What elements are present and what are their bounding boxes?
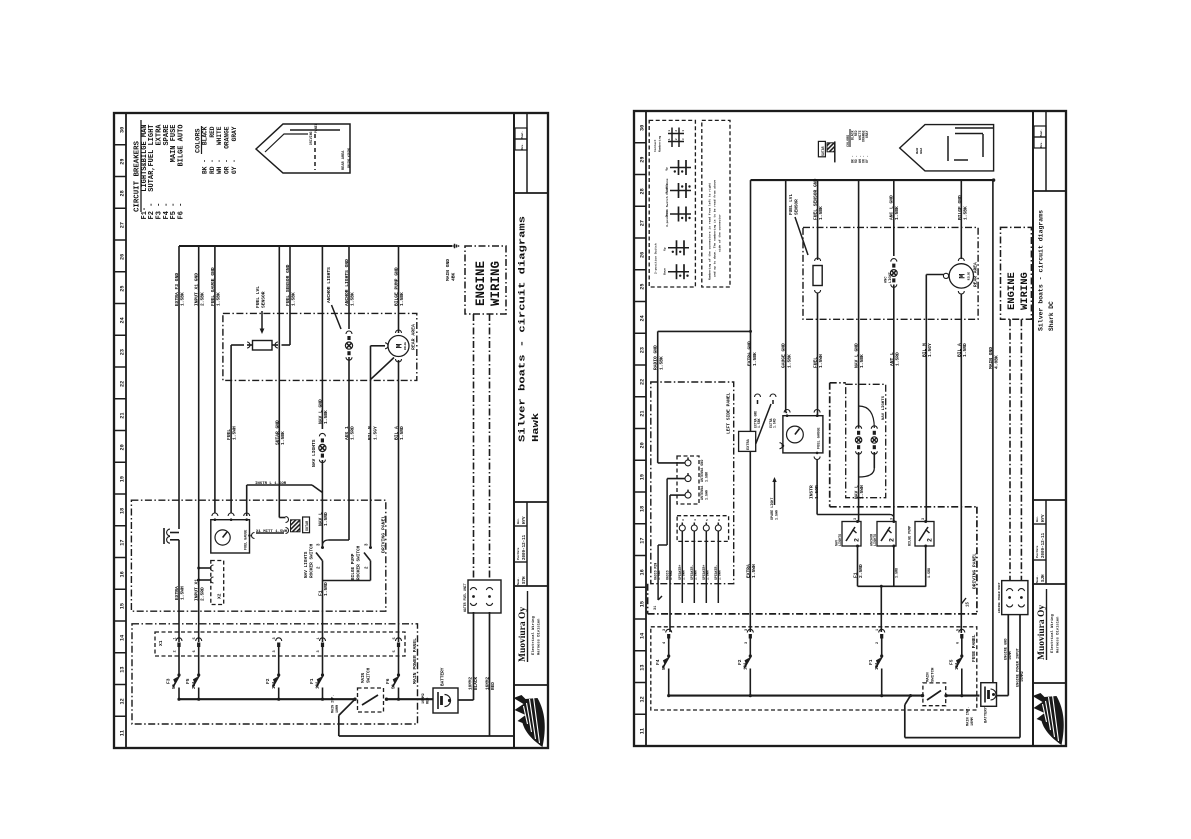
spare light arrow — [774, 479, 776, 505]
X1 pin 1 — [320, 638, 326, 641]
svg-text:F5: F5 — [948, 659, 954, 665]
svg-text:NAV L: NAV L — [317, 512, 323, 526]
svg-text:10A: 10A — [745, 662, 749, 670]
svg-text:OR -: OR - — [224, 159, 231, 174]
fuse F2 — [278, 647, 280, 675]
svg-text:1.5RD: 1.5RD — [669, 570, 673, 580]
svg-text:1.5RD: 1.5RD — [399, 426, 405, 440]
title block rev/date/form cells — [526, 502, 528, 586]
svg-text:1.5OR: 1.5OR — [814, 485, 820, 499]
engine wiring trunk lines — [473, 314, 475, 580]
svg-text:24: 24 — [120, 317, 126, 323]
svg-text:13: 13 — [640, 665, 646, 671]
wire FUEL GAUGE GND — [214, 246, 216, 513]
svg-text:1.5GY: 1.5GY — [927, 343, 933, 357]
svg-text:ENGINE GND: ENGINE GND — [1005, 638, 1009, 660]
svg-text:10A: 10A — [273, 681, 277, 689]
fuse panel pin + fuse F1 — [879, 629, 885, 632]
svg-text:SWITCH: SWITCH — [368, 667, 372, 683]
fuel gauge right — [783, 416, 823, 453]
X1 pin 1 — [176, 638, 182, 641]
svg-text:Rev.: Rev. — [1040, 141, 1043, 147]
svg-text:2.5RD: 2.5RD — [858, 564, 864, 578]
svg-text:EXTRA: EXTRA — [174, 586, 180, 600]
svg-text:ENGINE POWER INPUT: ENGINE POWER INPUT — [1017, 647, 1021, 687]
svg-text:3: 3 — [890, 518, 894, 520]
terminal tag 15 — [961, 598, 966, 604]
gauge terminals right — [784, 410, 790, 413]
wire AUX 1 (anchor lamp down) — [348, 357, 350, 540]
wire INSTR — [816, 460, 818, 515]
svg-text:RED: RED — [491, 682, 496, 690]
radio minus wire to tag 31 — [666, 479, 668, 545]
svg-text:Rev.: Rev. — [517, 518, 520, 524]
svg-text:GY -: GY - — [231, 159, 238, 174]
svg-text:16A: 16A — [956, 662, 960, 670]
svg-text:15: 15 — [120, 603, 126, 609]
svg-text:1.5BK: 1.5BK — [859, 354, 865, 368]
svg-text:AUX 1: AUX 1 — [344, 426, 350, 440]
svg-text:LEFT SIDE PANEL: LEFT SIDE PANEL — [726, 392, 732, 434]
svg-text:1: 1 — [876, 629, 880, 631]
wire EXTRA (antenna to X1) — [178, 540, 180, 642]
svg-text:F1: F1 — [309, 678, 315, 684]
wire battery to water fuel unit — [473, 612, 475, 700]
MAIN POWER PANEL dash-dot box — [132, 624, 418, 724]
svg-text:1.5BK: 1.5BK — [280, 431, 286, 445]
svg-text:Rev.: Rev. — [1036, 516, 1039, 522]
svg-text:F5: F5 — [185, 678, 191, 684]
svg-text:BIL M: BIL M — [367, 426, 373, 440]
wire RADIO plus to fuse F4 — [669, 495, 671, 632]
svg-text:F2: F2 — [265, 678, 271, 684]
rocker switch ANCHOR LIGHTS right — [877, 522, 896, 547]
svg-text:29: 29 — [120, 159, 126, 165]
svg-text:27: 27 — [120, 222, 126, 228]
svg-text:1.5WH: 1.5WH — [818, 354, 824, 368]
LEFT SIDE PANEL dash-dot box — [651, 382, 734, 584]
svg-text:SENSOR: SENSOR — [795, 199, 800, 215]
svg-text:FUEL LVL: FUEL LVL — [255, 286, 261, 308]
wire BIL M (motor to switch) — [385, 343, 388, 349]
svg-text:21: 21 — [640, 411, 646, 417]
svg-text:SWITCH: SWITCH — [932, 667, 936, 682]
boat outline icon — [256, 124, 350, 173]
DRIVING PANEL dash-dot box — [131, 500, 385, 611]
SUTAR legend symbol — [818, 141, 825, 156]
svg-text:SPARE LIGHT: SPARE LIGHT — [771, 498, 775, 520]
boat divider and labels — [314, 134, 316, 170]
wire BIL A (motor to X1 pin) — [398, 360, 400, 642]
svg-text:EXTRA: EXTRA — [745, 564, 751, 578]
svg-text:5A: 5A — [393, 683, 397, 689]
fuel gauge top terminals — [212, 513, 218, 516]
svg-text:16MM2: 16MM2 — [1021, 671, 1025, 682]
svg-text:F4: F4 — [655, 659, 661, 665]
svg-text:1.5WH: 1.5WH — [232, 426, 238, 440]
svg-text:17: 17 — [120, 540, 126, 546]
svg-text:3: 3 — [745, 642, 749, 644]
fuse panel pin + fuse F2 — [747, 629, 753, 632]
svg-text:28: 28 — [120, 190, 126, 196]
svg-text:1.5RD: 1.5RD — [323, 582, 329, 596]
svg-text:1.5BK: 1.5BK — [658, 356, 664, 370]
svg-text:14: 14 — [120, 635, 126, 641]
legend box switch positions — [649, 120, 695, 287]
svg-text:2009-12-11: 2009-12-11 — [523, 534, 527, 560]
extra antenna connector — [167, 529, 170, 536]
svg-text:2: 2 — [854, 538, 861, 542]
WATER FUEL UNIT connector box — [468, 580, 501, 613]
svg-text:29: 29 — [640, 157, 646, 163]
svg-text:Muut.: Muut. — [521, 131, 524, 139]
svg-text:1.5BK: 1.5BK — [752, 352, 758, 366]
bilge pump motor M — [388, 336, 409, 357]
svg-text:Electrical Wiring: Electrical Wiring — [1050, 614, 1055, 653]
svg-text:16MM2: 16MM2 — [486, 676, 491, 690]
svg-text:LIGHT: LIGHT — [889, 271, 893, 283]
svg-text:1.5BK: 1.5BK — [350, 292, 356, 306]
wire F1 (to X1) — [322, 581, 324, 643]
svg-text:1.5BK: 1.5BK — [963, 206, 969, 220]
svg-text:MAIN INP.: MAIN INP. — [967, 707, 971, 726]
wire NAV L GND — [321, 246, 323, 429]
svg-text:REAR: REAR — [916, 147, 919, 154]
svg-text:Middle: Middle — [665, 183, 669, 193]
left sheet frame and ruler — [114, 113, 548, 748]
svg-text:PANEL: PANEL — [314, 123, 318, 133]
wire NAV L to switch — [858, 452, 860, 521]
rocker switch BILGE PUMP right — [915, 522, 934, 547]
svg-text:BK -: BK - — [202, 159, 209, 174]
svg-text:5A: 5A — [173, 683, 177, 689]
svg-text:ENGINE: ENGINE — [1006, 272, 1018, 310]
svg-text:RD -: RD - — [209, 159, 216, 174]
svg-text:4.0BK: 4.0BK — [994, 355, 1000, 369]
svg-text:1.5WH: 1.5WH — [775, 510, 779, 520]
svg-text:20: 20 — [640, 442, 646, 448]
svg-text:BILGE: BILGE — [968, 271, 971, 280]
svg-text:6: 6 — [193, 650, 197, 652]
svg-text:Numbering: Numbering — [658, 136, 662, 152]
speaker wires — [681, 531, 683, 603]
fuel gauge — [211, 520, 250, 553]
svg-text:S7H: S7H — [523, 576, 527, 584]
svg-text:3: 3 — [273, 650, 277, 652]
svg-text:ENGINE POWER UNIT: ENGINE POWER UNIT — [998, 582, 1001, 613]
svg-text:1: 1 — [317, 637, 321, 639]
fuel gauge right terminal to SUTAR — [248, 534, 251, 537]
svg-text:WH -: WH - — [216, 159, 223, 174]
wire GAUGE GND right — [785, 180, 787, 412]
svg-text:RADIO GND: RADIO GND — [653, 345, 659, 370]
svg-text:5: 5 — [706, 519, 709, 521]
svg-text:3: 3 — [682, 519, 685, 521]
svg-text:1.5WH: 1.5WH — [706, 570, 710, 580]
MAIN SWITCH right — [923, 683, 946, 706]
svg-text:BILGE: BILGE — [404, 342, 407, 350]
svg-text:23: 23 — [640, 347, 646, 353]
svg-text:13: 13 — [120, 667, 126, 673]
wire BILGE PUMP GND — [398, 246, 400, 333]
svg-text:25A: 25A — [193, 681, 197, 689]
svg-text:1.5WH: 1.5WH — [859, 485, 865, 499]
fuse panel pin + fuse F4 — [666, 629, 672, 632]
svg-text:5: 5 — [193, 637, 197, 639]
svg-text:M: M — [958, 273, 968, 278]
fuse F1 — [322, 647, 324, 675]
BATTERY — [433, 688, 458, 713]
X1 connector box — [155, 632, 405, 656]
svg-text:1.5BK: 1.5BK — [657, 570, 661, 580]
svg-text:1.5BK: 1.5BK — [818, 206, 824, 220]
svg-text:1.5RD: 1.5RD — [962, 343, 968, 357]
svg-text:1.5WH: 1.5WH — [718, 570, 722, 580]
wire F1 branch to bilge switch — [323, 580, 371, 582]
svg-text:ORANGE: ORANGE — [224, 126, 231, 149]
svg-text:BIL A: BIL A — [394, 426, 400, 440]
svg-text:3: 3 — [745, 629, 749, 631]
REAR AREA dash-dot box right — [803, 227, 978, 319]
svg-text:BILGE GND: BILGE GND — [957, 195, 963, 220]
svg-text:1.5WH: 1.5WH — [682, 570, 686, 580]
svg-text:Electrical Wiring: Electrical Wiring — [531, 616, 536, 655]
svg-text:MAIN: MAIN — [927, 672, 931, 682]
wire engine power input cable — [905, 696, 911, 705]
svg-text:2-position Switch: 2-position Switch — [654, 243, 658, 274]
anchor light lamp — [345, 342, 352, 349]
svg-text:SUTAR GND: SUTAR GND — [274, 420, 280, 445]
svg-text:DRIVING: DRIVING — [309, 132, 313, 145]
DRIVING PANEL dash-dot box right — [830, 506, 977, 508]
svg-text:16: 16 — [640, 569, 646, 575]
svg-text:3: 3 — [854, 518, 858, 520]
svg-text:1.5RD: 1.5RD — [773, 418, 777, 428]
svg-text:SENSOR: SENSOR — [261, 291, 267, 308]
svg-text:Up: Up — [664, 247, 667, 251]
svg-text:Harness Division: Harness Division — [537, 618, 542, 655]
svg-text:Pvm/Date: Pvm/Date — [1035, 545, 1039, 558]
svg-text:23: 23 — [120, 349, 126, 355]
svg-text:10MM2: 10MM2 — [422, 693, 426, 704]
bilge pump motor right — [960, 180, 962, 259]
svg-text:AREA: AREA — [920, 147, 923, 154]
svg-text:25: 25 — [640, 284, 646, 290]
svg-text:X1: X1 — [158, 640, 164, 646]
svg-text:5: 5 — [393, 637, 397, 639]
REAR AREA dash-dot box — [223, 313, 417, 380]
svg-text:ANTENNA: ANTENNA — [701, 485, 705, 500]
svg-text:11: 11 — [640, 728, 646, 734]
svg-text:BILGE PUMP: BILGE PUMP — [351, 553, 356, 580]
svg-text:14: 14 — [640, 633, 646, 639]
svg-text:6: 6 — [956, 642, 960, 644]
svg-text:NAV L GND: NAV L GND — [854, 343, 860, 368]
svg-text:INSTR: INSTR — [809, 485, 815, 499]
svg-text:10A: 10A — [317, 681, 321, 689]
radio 3-pin connector — [677, 456, 699, 504]
svg-text:21: 21 — [120, 413, 126, 419]
svg-text:19: 19 — [640, 474, 646, 480]
svg-text:1.5WH: 1.5WH — [751, 564, 757, 578]
svg-text:NAV LIGHTS: NAV LIGHTS — [304, 551, 309, 578]
svg-text:5: 5 — [956, 629, 960, 631]
svg-text:WHITE: WHITE — [216, 126, 223, 145]
wire SUTAR GND — [278, 246, 280, 518]
svg-text:BATTERY: BATTERY — [441, 667, 446, 686]
svg-text:WIRING: WIRING — [1019, 272, 1031, 310]
FUSE PANEL dashed box — [651, 627, 977, 710]
wire FUEL SENSOR GND — [289, 246, 291, 345]
svg-text:HYV: HYV — [1042, 514, 1046, 522]
svg-text:1.5BK: 1.5BK — [323, 410, 329, 424]
right sheet frame and ruler — [634, 111, 1066, 746]
svg-text:Muoviura Oy: Muoviura Oy — [1037, 605, 1047, 660]
EXTRA connector box right — [739, 431, 756, 451]
svg-text:4BK: 4BK — [451, 272, 457, 281]
svg-text:ROCKER SWITCH: ROCKER SWITCH — [357, 545, 362, 580]
svg-text:12: 12 — [640, 696, 646, 702]
title block rev/date/form cells — [1045, 500, 1047, 584]
svg-text:1.5BK: 1.5BK — [757, 418, 761, 428]
svg-text:1.5BK: 1.5BK — [786, 354, 792, 368]
svg-text:Down: Down — [664, 268, 667, 275]
company logo — [1033, 693, 1064, 745]
svg-text:MAIN: MAIN — [362, 672, 366, 683]
svg-text:1.5BK: 1.5BK — [894, 206, 900, 220]
svg-text:Muut.: Muut. — [1040, 129, 1043, 137]
svg-text:Hawk: Hawk — [530, 412, 541, 442]
svg-text:1.5BK: 1.5BK — [705, 471, 709, 482]
svg-text:2.5RD: 2.5RD — [199, 587, 205, 601]
svg-text:Numbering of the connectors is: Numbering of the connectors is read from… — [708, 183, 712, 280]
svg-text:10A: 10A — [876, 662, 880, 670]
svg-text:11: 11 — [120, 730, 126, 736]
svg-text:SUTAR: SUTAR — [306, 520, 310, 531]
svg-text:ANTENNA GND: ANTENNA GND — [701, 460, 705, 482]
svg-text:F1: F1 — [318, 590, 324, 596]
fuse F5 — [198, 647, 200, 675]
svg-text:26: 26 — [640, 252, 646, 258]
svg-text:NAV LIGHTS: NAV LIGHTS — [311, 439, 317, 467]
bus left corner to radio gnd — [750, 180, 752, 431]
svg-text:5: 5 — [393, 650, 397, 652]
svg-text:Down: Down — [666, 210, 669, 217]
svg-text:20: 20 — [120, 444, 126, 450]
svg-text:WATER FUEL UNIT: WATER FUEL UNIT — [463, 583, 467, 612]
svg-text:F3: F3 — [166, 678, 172, 684]
wire NAV L GND right — [858, 180, 860, 388]
wire FUEL (sender to gauge) — [231, 344, 244, 346]
SUTAR connector — [286, 517, 289, 523]
svg-text:1.5RD: 1.5RD — [323, 512, 329, 526]
svg-text:1.5WH: 1.5WH — [694, 570, 698, 580]
wire EXTRA to fuse F2 — [749, 451, 751, 632]
wire engine gnd cable — [997, 695, 1009, 697]
ground symbol — [452, 245, 454, 246]
svg-text:30: 30 — [120, 127, 126, 133]
svg-text:22: 22 — [120, 381, 126, 387]
svg-text:MAIN GND: MAIN GND — [445, 259, 451, 281]
svg-text:REAR AREA: REAR AREA — [342, 150, 346, 170]
svg-text:15: 15 — [640, 601, 646, 607]
svg-text:EXTRA: EXTRA — [747, 438, 751, 450]
svg-text:MAIN GND: MAIN GND — [988, 347, 994, 369]
svg-text:1.5WH: 1.5WH — [705, 490, 709, 500]
boat outline icon right — [900, 125, 994, 171]
svg-text:16MM: 16MM — [1009, 651, 1013, 660]
svg-text:1.5BK: 1.5BK — [180, 292, 186, 306]
wire F1 feed rail right — [857, 546, 859, 586]
svg-text:1.5RD: 1.5RD — [896, 568, 900, 578]
fuse panel pin + fuse F5 — [959, 629, 965, 632]
svg-text:1.5GY: 1.5GY — [373, 426, 379, 440]
svg-text:NAV LIGHTS: NAV LIGHTS — [882, 395, 886, 420]
wire battery minus to engine — [339, 699, 355, 715]
svg-text:INSTR L 1.5OR: INSTR L 1.5OR — [255, 482, 287, 486]
svg-text:3: 3 — [317, 650, 321, 652]
svg-text:27: 27 — [640, 220, 646, 226]
svg-text:BILGE AUTO: BILGE AUTO — [178, 125, 186, 167]
svg-text:3: 3 — [663, 629, 667, 631]
svg-text:side of the connector: side of the connector — [718, 214, 722, 252]
wire INSTR L — [247, 484, 312, 486]
fuse F6 — [398, 647, 400, 675]
X1 pin 5 — [396, 638, 402, 641]
svg-text:DRIVING PANEL: DRIVING PANEL — [972, 553, 978, 589]
svg-text:22: 22 — [640, 379, 646, 385]
svg-text:HYV: HYV — [523, 516, 527, 524]
wire NAV L (lamp to switch) — [321, 460, 323, 547]
fuel level sender right — [817, 180, 819, 260]
svg-text:3: 3 — [922, 518, 926, 520]
svg-text:RED: RED — [426, 697, 430, 704]
svg-text:FUSE PANEL: FUSE PANEL — [971, 634, 977, 662]
svg-text:FUEL GAUGE: FUEL GAUGE — [818, 427, 822, 449]
wire BIL A right — [960, 294, 962, 633]
svg-text:GY -: GY - — [865, 155, 869, 163]
svg-text:F6: F6 — [385, 678, 391, 684]
main power bus right — [669, 695, 923, 697]
MAIN SWITCH — [358, 688, 384, 712]
svg-text:GRAY: GRAY — [231, 126, 238, 141]
fuse F3 — [178, 647, 180, 675]
svg-text:18: 18 — [120, 508, 126, 514]
anchor light lamp right — [893, 180, 895, 256]
svg-text:DRIVING PANEL: DRIVING PANEL — [381, 515, 387, 553]
main power bus — [179, 698, 355, 700]
svg-text:16: 16 — [120, 571, 126, 577]
wire ANCHOR LIGHTS GND — [348, 246, 350, 329]
svg-text:5A: 5A — [663, 664, 667, 670]
ENGINE WIRING box — [465, 246, 506, 314]
svg-text:30: 30 — [640, 125, 646, 131]
svg-text:2: 2 — [174, 650, 178, 652]
svg-text:F6 -: F6 - — [178, 203, 186, 220]
main bus right of switch — [387, 698, 434, 700]
svg-text:Suun.: Suun. — [1036, 575, 1039, 583]
svg-text:24: 24 — [640, 315, 646, 321]
svg-text:EXTRA GND: EXTRA GND — [747, 341, 753, 366]
main ground bus wire — [179, 245, 452, 247]
legend box connector numbering note — [702, 120, 730, 287]
svg-text:X1 MITT 1.5WH: X1 MITT 1.5WH — [256, 530, 288, 534]
svg-text:Contact: Contact — [654, 139, 657, 152]
wire BIL M right — [943, 273, 948, 278]
svg-text:FUEL: FUEL — [226, 429, 232, 440]
nav light lamp — [319, 444, 326, 451]
svg-text:Rev.: Rev. — [521, 143, 524, 149]
